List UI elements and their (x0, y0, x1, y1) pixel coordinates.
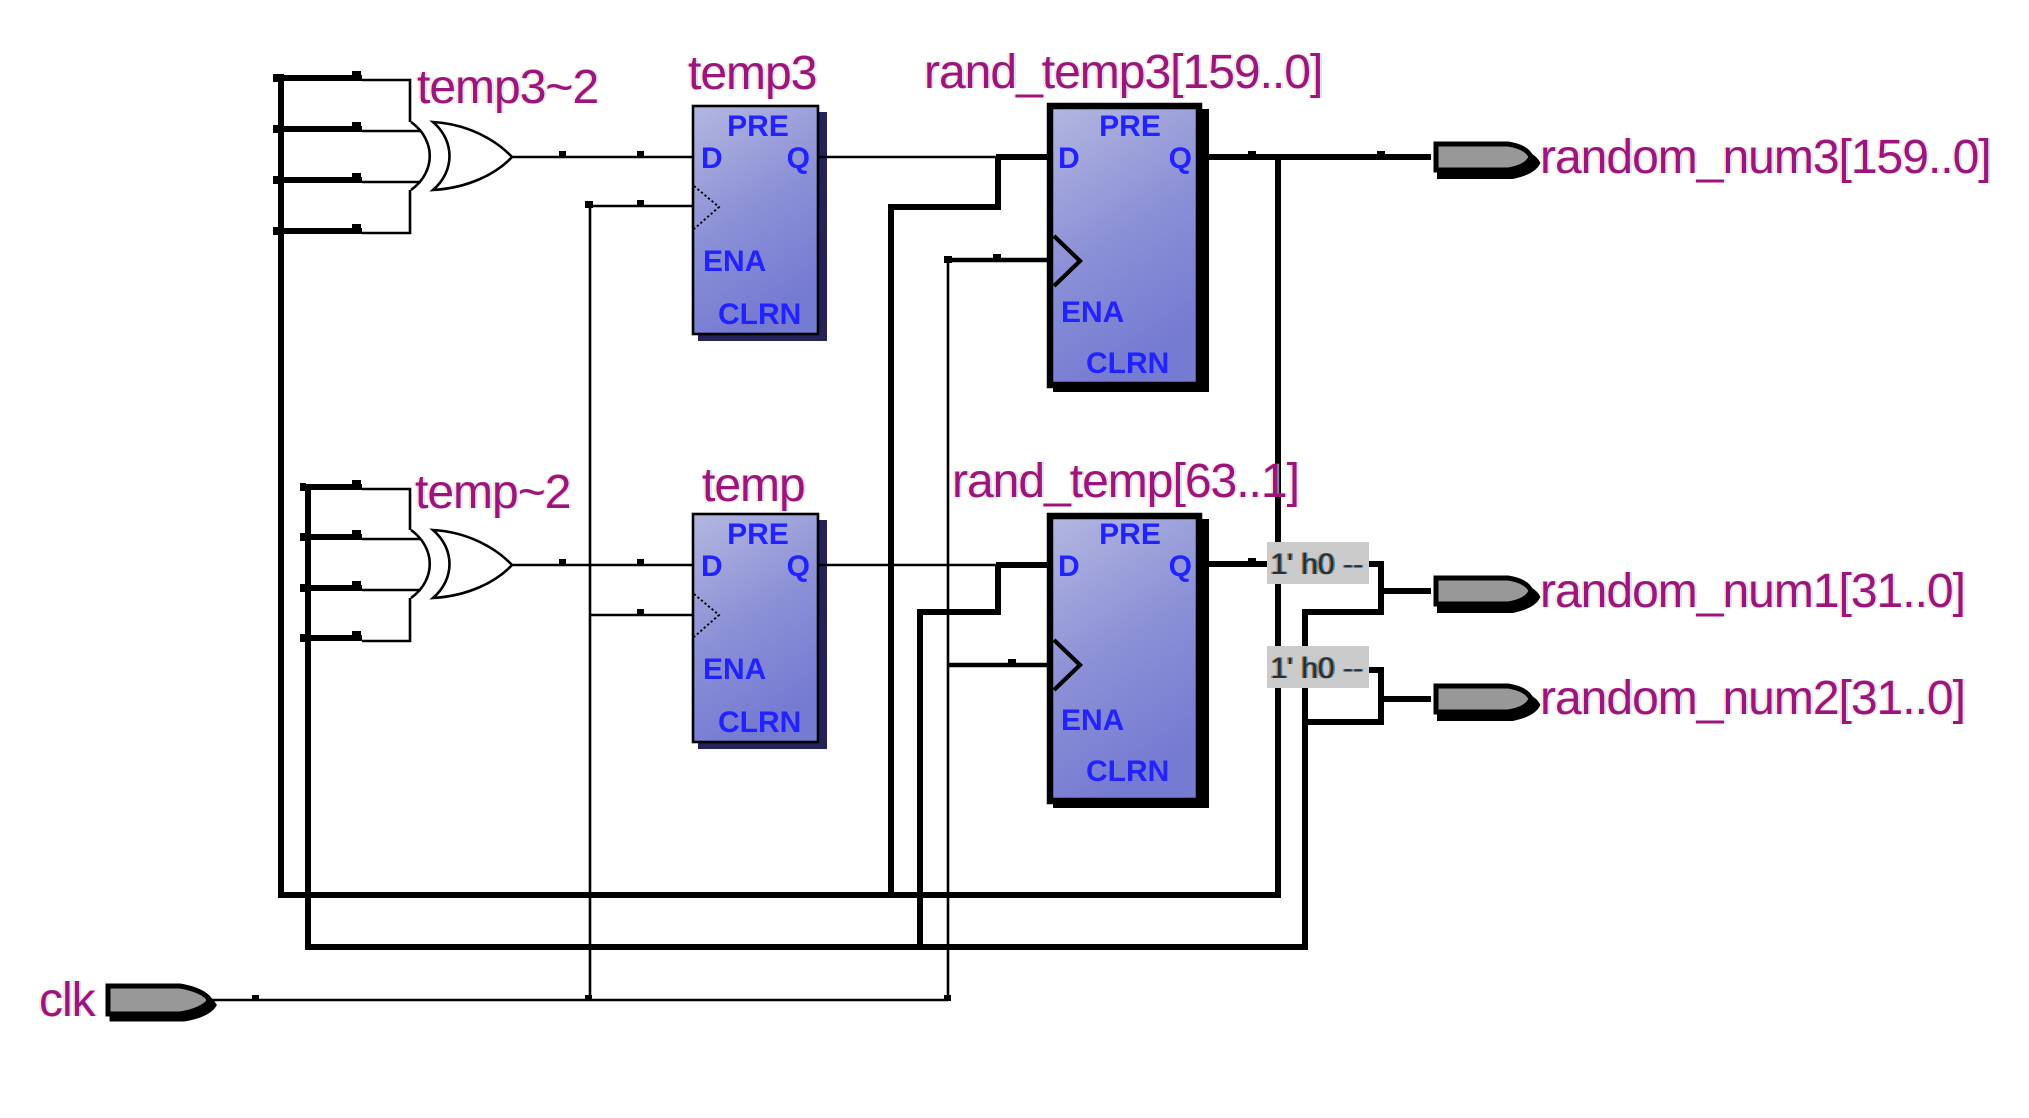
xor gate temp~2 (411, 530, 512, 598)
svg-text:1' h0 --: 1' h0 -- (1271, 652, 1363, 685)
junction tick B1.3 (352, 224, 361, 229)
label clk (37, 974, 99, 1027)
wire stub B1.2 (281, 177, 362, 183)
junction tick D1a (559, 151, 566, 156)
wire rand_temp3.Q to output pin (1202, 154, 1431, 160)
wire clk riser to temp3 clock (590, 206, 692, 1000)
wire XOR2 input 2 (362, 589, 421, 592)
corner bevel clk riser right (944, 256, 952, 263)
svg-text:ENA: ENA (1061, 704, 1124, 737)
svg-text:1' h0 --: 1' h0 -- (1271, 548, 1363, 581)
svg-text:temp3~2: temp3~2 (417, 61, 598, 114)
label random_num2[31..0] (1538, 672, 1967, 725)
wire XOR1 input 3 (362, 190, 410, 233)
wire feedback bottom line 2 (308, 944, 1305, 950)
label rand_temp3[159..0] (922, 46, 1324, 99)
wire random_num2 elbow (1305, 670, 1381, 722)
label temp3~2 (415, 61, 600, 114)
wire stub B2.2 (308, 585, 362, 591)
flip-flop rand_temp[63..1] (1050, 516, 1209, 808)
xor gate temp3~2 (411, 122, 512, 190)
svg-text:temp: temp (702, 459, 805, 512)
wire XOR1 input 1 (362, 130, 421, 133)
flip-flop rand_temp3[159..0] (1050, 106, 1209, 392)
label temp~2 (413, 466, 572, 519)
svg-text:Q: Q (787, 550, 810, 583)
output pin random_num2[31..0] (1436, 686, 1537, 718)
svg-text:random_num1[31..0]: random_num1[31..0] (1540, 565, 1965, 618)
label temp3 (686, 47, 818, 100)
svg-text:Q: Q (1169, 550, 1192, 583)
label temp (700, 459, 807, 512)
svg-text:PRE: PRE (727, 110, 789, 143)
input pin clk (108, 986, 214, 1019)
junction tick B1.1 (352, 122, 361, 127)
svg-text:CLRN: CLRN (718, 298, 801, 331)
label random_num1[31..0] (1538, 565, 1967, 618)
wire temp3.Q to rand_temp3.D (thick end) (996, 154, 1047, 160)
svg-text:CLRN: CLRN (1086, 755, 1169, 788)
corner bevel clk riser base (585, 995, 592, 1001)
junction tick clk3 (637, 609, 644, 614)
label rand_temp[63..1] (950, 455, 1301, 508)
svg-text:CLRN: CLRN (1086, 347, 1169, 380)
wire temp.Q to rand_temp.D (thick end) (996, 562, 1047, 568)
junction tick clk2 (993, 254, 1001, 259)
wire stub B2.3 (308, 635, 362, 641)
junction tick Q2a (1248, 151, 1256, 156)
wire clk branch to temp clock (590, 614, 692, 617)
wire random_num1 elbow (1305, 564, 1381, 950)
junction tick B2.3 (352, 631, 361, 636)
svg-text:temp3: temp3 (688, 47, 816, 100)
wire XOR1 output to temp3.D (512, 156, 692, 159)
svg-text:random_num2[31..0]: random_num2[31..0] (1540, 672, 1965, 725)
junction tick B1.2 (352, 173, 361, 178)
junction tick D1 (637, 151, 644, 156)
svg-text:ENA: ENA (703, 245, 766, 278)
wire rand_temp.Q to constant box (1202, 561, 1267, 567)
junction tick D3a (559, 559, 566, 564)
junction tick clk4 (1008, 659, 1016, 664)
wire stub B1.0 (281, 75, 362, 81)
output pin random_num1[31..0] (1436, 578, 1537, 610)
wire stub B2.0 (308, 484, 362, 490)
wire clk stub into rand_temp clock (948, 663, 1047, 668)
svg-text:random_num3[159..0]: random_num3[159..0] (1540, 131, 1991, 184)
svg-text:PRE: PRE (727, 518, 789, 551)
wire clk riser right (to rand_temp3 / rand_temp clocks) (947, 260, 950, 1000)
wire clk stub into rand_temp3 clock (948, 258, 1047, 263)
constant box 1'h0 upper (1267, 542, 1369, 584)
wire XOR1 input 2 (362, 181, 421, 184)
wire XOR2 input 3 (362, 598, 410, 641)
svg-text:D: D (1058, 142, 1080, 175)
constant box 1'h0 lower (1267, 646, 1369, 688)
svg-text:D: D (701, 550, 723, 583)
wire stub B1.1 (281, 126, 362, 132)
wire feedback elbow from temp.Q down (920, 565, 998, 950)
wire clk horizontal (206, 999, 948, 1002)
label random_num3[159..0] (1538, 131, 1993, 184)
wire XOR2 input 0 (362, 489, 410, 530)
wire to pin random_num2 (1381, 696, 1431, 702)
svg-text:ENA: ENA (703, 653, 766, 686)
wire temp3.Q to rand_temp3.D (thin) (818, 156, 1000, 159)
wire feedback vertical right (random_num3 net) (1275, 157, 1281, 898)
wire XOR2 output to temp.D (512, 564, 692, 567)
bus B1 stub joint nubs (273, 74, 279, 82)
wire to pin random_num1 (1381, 588, 1431, 594)
flip-flop temp3 (693, 106, 827, 341)
junction tick Q2b (1377, 151, 1385, 156)
svg-text:Q: Q (1169, 142, 1192, 175)
wire XOR2 input 1 (362, 538, 421, 541)
svg-text:D: D (701, 142, 723, 175)
wire XOR1 input 0 (362, 80, 410, 122)
svg-text:rand_temp3[159..0]: rand_temp3[159..0] (924, 46, 1322, 99)
output pin random_num3[159..0] (1436, 144, 1537, 176)
flip-flop temp (693, 514, 827, 749)
junction tick B2.0 (352, 480, 361, 485)
svg-text:ENA: ENA (1061, 296, 1124, 329)
wire stub B1.3 (281, 228, 362, 234)
svg-text:Q: Q (787, 142, 810, 175)
wire feedback elbow from temp3.Q down (891, 157, 998, 898)
wire stub B2.1 (308, 534, 362, 540)
svg-text:PRE: PRE (1099, 518, 1161, 551)
junction tick clk1 (637, 200, 644, 205)
svg-text:clk: clk (39, 974, 97, 1027)
junction tick clk0 (252, 995, 259, 1000)
bus B2 stub joint nubs (300, 483, 306, 491)
junction tick D3 (637, 559, 644, 564)
svg-text:rand_temp[63..1]: rand_temp[63..1] (952, 455, 1299, 508)
svg-text:D: D (1058, 550, 1080, 583)
svg-text:temp~2: temp~2 (415, 466, 570, 519)
junction tick Q4 (1248, 558, 1256, 563)
bus B1 (temp3 feedback bus, left vertical) (278, 74, 284, 898)
bus B2 (temp feedback bus, middle-left vertical) (305, 484, 311, 950)
junction tick B1.0 (352, 71, 361, 76)
junction tick B2.2 (352, 581, 361, 586)
svg-text:PRE: PRE (1099, 110, 1161, 143)
junction tick B2.1 (352, 530, 361, 535)
wire feedback bottom line 1 (281, 892, 1278, 898)
corner bevel clk riser / temp3 clock (585, 201, 593, 208)
svg-text:CLRN: CLRN (718, 706, 801, 739)
wire temp.Q to rand_temp.D (thin) (818, 564, 1000, 567)
